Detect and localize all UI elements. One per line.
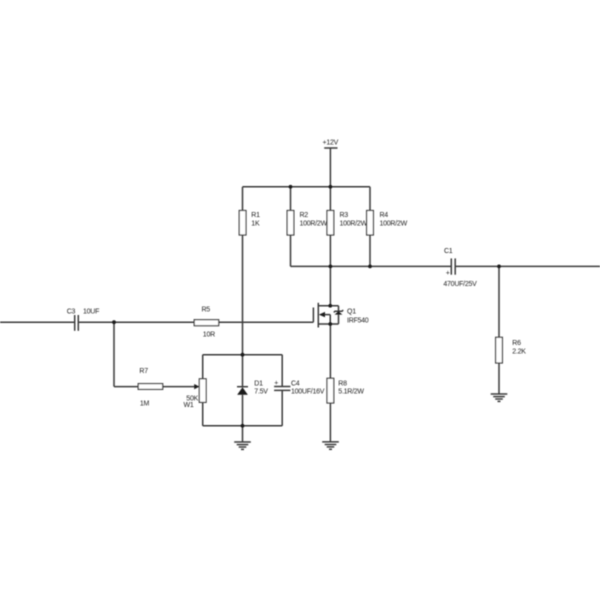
- svg-text:D1: D1: [254, 381, 263, 388]
- svg-text:R1: R1: [251, 212, 260, 219]
- svg-text:C3: C3: [67, 308, 76, 315]
- svg-text:R4: R4: [380, 212, 389, 219]
- svg-text:+: +: [446, 270, 450, 277]
- svg-text:R6: R6: [512, 340, 521, 347]
- svg-text:470UF/25V: 470UF/25V: [443, 281, 477, 288]
- svg-text:5.1R/2W: 5.1R/2W: [338, 389, 364, 396]
- svg-text:100R/2W: 100R/2W: [380, 221, 408, 228]
- svg-text:100UF/16V: 100UF/16V: [291, 389, 325, 396]
- svg-text:R7: R7: [139, 368, 148, 375]
- svg-text:1K: 1K: [251, 221, 260, 228]
- svg-text:100R/2W: 100R/2W: [300, 221, 328, 228]
- svg-text:R8: R8: [338, 381, 347, 388]
- svg-text:+12V: +12V: [323, 139, 339, 146]
- svg-text:C4: C4: [291, 381, 300, 388]
- svg-text:R5: R5: [202, 307, 211, 314]
- svg-text:2.2K: 2.2K: [512, 349, 526, 356]
- svg-text:1M: 1M: [140, 400, 150, 407]
- svg-text:7.5V: 7.5V: [254, 389, 268, 396]
- svg-text:10R: 10R: [203, 331, 215, 338]
- svg-text:10UF: 10UF: [83, 308, 99, 315]
- svg-text:Q1: Q1: [347, 309, 356, 316]
- svg-text:R2: R2: [300, 212, 309, 219]
- svg-text:IRF540: IRF540: [347, 317, 369, 324]
- svg-text:W1: W1: [184, 402, 194, 409]
- svg-text:R3: R3: [340, 212, 349, 219]
- svg-text:100R/2W: 100R/2W: [340, 221, 368, 228]
- svg-text:C1: C1: [444, 248, 453, 255]
- svg-text:+: +: [274, 380, 278, 387]
